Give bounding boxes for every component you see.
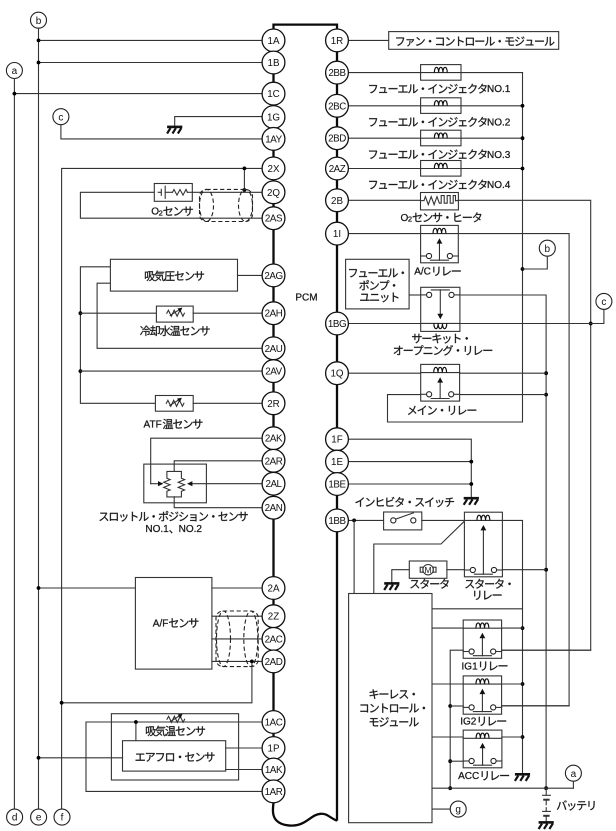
svg-text:2AR: 2AR — [265, 456, 283, 467]
svg-text:1AK: 1AK — [265, 765, 283, 776]
svg-text:2BB: 2BB — [328, 68, 346, 79]
wire 2AK to TPS wiper1 — [151, 438, 262, 484]
node b (top-left) — [31, 12, 47, 28]
svg-text:g: g — [455, 805, 461, 816]
svg-text:a: a — [12, 66, 18, 77]
svg-text:c: c — [601, 297, 606, 308]
shield A/F cable — [216, 611, 258, 667]
wire 2AG — [238, 274, 263, 276]
wire MAF to e-bus — [39, 757, 123, 759]
node f (bottom) — [54, 809, 70, 825]
wire 2X shield drain — [243, 168, 245, 190]
wire circuit relay contact to B-bus — [460, 295, 546, 788]
svg-text:ACC: ACC — [458, 771, 479, 782]
PCM left pins 1A 1B 1C 1G 1AY 2X 2Q 2AS 2AG 2AH 2AU 2AV 2R 2AK 2AR 2AL 2AN 2A 2Z 2AC 2AD 1AC 1P 1AK 1AR — [262, 29, 285, 52]
wire starter relay contact right — [502, 569, 546, 571]
svg-text:2AN: 2AN — [265, 503, 283, 514]
svg-text:2X: 2X — [268, 164, 280, 175]
wire keyless to battery bus — [432, 787, 573, 789]
wire c to 1AY — [61, 125, 262, 139]
wire 1AK — [226, 769, 262, 771]
svg-text:a: a — [571, 769, 577, 780]
A/C relay label — [414, 267, 460, 278]
wire starter relay coil to keyless — [374, 521, 465, 593]
inhibitor switch — [384, 512, 422, 530]
wire a-to-d vertical bus — [13, 79, 15, 810]
wire 1BE — [348, 483, 471, 485]
TPS outer box — [144, 464, 207, 503]
wire 2AR to TPS top — [174, 461, 262, 472]
wire injector 3 right — [461, 137, 523, 139]
node c (right) — [596, 293, 612, 309]
wire injector 2 left — [348, 105, 420, 107]
O2 sensor heater — [421, 193, 459, 210]
wire keyless to IG1 coil — [432, 627, 463, 629]
svg-text:1F: 1F — [331, 435, 342, 446]
svg-text:2AD: 2AD — [265, 657, 283, 668]
wire keyless to IG2 coil — [432, 683, 463, 685]
TPS resistor element 1 — [164, 471, 175, 497]
node a (left) — [6, 63, 22, 79]
svg-text:2AV: 2AV — [265, 367, 282, 378]
MAF label — [136, 752, 215, 761]
node c (left) — [53, 109, 69, 125]
wire b-to-e vertical bus — [38, 28, 40, 809]
svg-text:b: b — [545, 244, 551, 255]
PCM label — [295, 293, 317, 304]
wire ACC contact left — [450, 760, 463, 762]
injector supply bus — [388, 73, 523, 422]
wire 2AD shield drain to f-bus — [62, 661, 252, 702]
svg-text:2AC: 2AC — [265, 634, 283, 645]
svg-text:e: e — [36, 813, 42, 824]
svg-text:1BB: 1BB — [328, 516, 346, 527]
IAT thermistor symbol — [167, 716, 185, 722]
battery label — [557, 800, 595, 810]
wire 1C — [14, 93, 262, 95]
svg-text:1B: 1B — [268, 58, 280, 69]
svg-text:IG2: IG2 — [460, 717, 477, 728]
svg-text:2AU: 2AU — [265, 344, 283, 355]
wire IG1 contact left down — [450, 650, 463, 788]
wire IG2 contact right — [502, 705, 569, 707]
wire a drop — [572, 781, 574, 788]
wire injector 1 left — [348, 72, 420, 74]
wire 1Q — [348, 372, 420, 374]
node b (right) — [539, 240, 555, 256]
wire injector 2 right — [461, 105, 523, 107]
svg-text:NO.1: NO.1 — [487, 84, 511, 95]
wire O2 sensor loop to 2AS — [80, 192, 262, 218]
wire main relay coil right — [460, 372, 546, 374]
A/F sensor label — [153, 618, 199, 629]
wire 2AD — [212, 660, 263, 662]
IG1 relay — [463, 620, 501, 658]
coolant temp label — [140, 326, 209, 336]
wire 2B right to D-bus — [458, 200, 591, 650]
svg-text:1Q: 1Q — [330, 369, 343, 380]
battery — [545, 788, 547, 795]
svg-text:2R: 2R — [267, 399, 280, 410]
circuit opening relay label l2 — [394, 345, 492, 355]
fuel injector NO.3 — [421, 130, 461, 146]
svg-text:1AR: 1AR — [265, 787, 283, 798]
circuit opening relay — [421, 287, 460, 331]
node a (right) — [565, 765, 581, 781]
wire fuel pump to relay contact — [409, 294, 421, 296]
fuel pump unit box — [346, 259, 410, 309]
MAP sensor label — [145, 271, 204, 282]
O2 heater label — [401, 212, 482, 223]
PCM right connector spine — [336, 40, 338, 820]
MAF outer box — [111, 714, 238, 780]
svg-text:1C: 1C — [267, 89, 280, 100]
ground ACC bus — [515, 773, 530, 776]
ATF temp sensor — [155, 396, 193, 412]
IAT label — [146, 726, 205, 737]
wire 1I — [348, 233, 420, 235]
svg-text:2AG: 2AG — [264, 271, 282, 282]
wire injector 1 right — [461, 72, 523, 74]
svg-text:M: M — [425, 565, 432, 575]
wire 2Z — [212, 615, 263, 617]
node e (bottom) — [31, 809, 47, 825]
ACC relay — [463, 730, 502, 768]
TPS label line2 — [145, 524, 202, 535]
wire bus to keyless top right — [432, 608, 523, 610]
keyless control module box — [349, 594, 432, 823]
svg-text:1BE: 1BE — [328, 480, 346, 491]
ground 1G — [167, 126, 182, 129]
svg-text:1I: 1I — [333, 229, 341, 240]
wire 2AV — [80, 370, 262, 372]
svg-text:NO.3: NO.3 — [487, 150, 511, 161]
starter relay label l1 — [465, 579, 510, 589]
node d (bottom) — [7, 809, 23, 825]
svg-text:2B: 2B — [331, 196, 343, 207]
injector NO.1 label — [369, 84, 511, 95]
ground starter — [384, 582, 399, 585]
ATF temp label — [144, 419, 203, 431]
wire 1BB to keyless — [353, 520, 355, 593]
svg-text:2AZ: 2AZ — [329, 164, 346, 175]
svg-text:2A: 2A — [268, 584, 280, 595]
main relay label — [408, 406, 476, 415]
svg-text:1AY: 1AY — [265, 134, 282, 145]
PCM left connector spine — [272, 40, 274, 791]
wire coolant sensor left — [80, 312, 156, 314]
injector NO.2 label — [369, 117, 511, 128]
wire 2Q to O2 sensor — [192, 191, 262, 193]
wire b to injector bus — [523, 256, 548, 269]
O2 sensor — [154, 184, 192, 202]
svg-text:1G: 1G — [267, 113, 280, 124]
wire 1B — [39, 62, 263, 64]
fuel pump label l2 — [359, 280, 395, 290]
starter motor box — [409, 561, 447, 578]
coolant temp sensor — [156, 306, 193, 322]
fan control module label — [396, 36, 554, 46]
svg-text:2Z: 2Z — [268, 612, 279, 623]
starter relay label l2 — [474, 591, 501, 600]
IG2 relay label — [460, 717, 506, 728]
shield O2 sensor cable — [200, 189, 253, 221]
svg-text:2AS: 2AS — [265, 214, 283, 225]
svg-text:c: c — [58, 112, 63, 123]
wire 1BB to switch — [348, 519, 383, 521]
svg-text:1E: 1E — [331, 457, 343, 468]
wire injector 4 left — [348, 168, 420, 170]
ground battery — [539, 821, 554, 824]
svg-text:NO.4: NO.4 — [487, 180, 511, 191]
wire IG2 coil right — [502, 683, 523, 685]
ACC relay label — [458, 771, 509, 782]
svg-text:1BG: 1BG — [328, 319, 346, 330]
svg-text:1P: 1P — [268, 744, 280, 755]
wire injector 4 right — [461, 168, 523, 170]
wire IAT junction to MAF box — [135, 722, 137, 741]
wire 1G to ground — [175, 117, 262, 127]
svg-text:2AK: 2AK — [265, 434, 283, 445]
wire IG1 contact right — [502, 649, 591, 651]
injector NO.3 label — [369, 149, 511, 160]
svg-text:IG1: IG1 — [462, 661, 479, 672]
fuel injector NO.1 — [421, 65, 461, 81]
A/F sensor box — [135, 578, 212, 670]
main relay — [421, 364, 460, 401]
svg-text:2: 2 — [159, 208, 163, 217]
fuel pump label l1 — [349, 269, 404, 278]
svg-text:2AL: 2AL — [265, 479, 282, 490]
svg-text:2Q: 2Q — [267, 188, 280, 199]
wire 2B left — [348, 199, 421, 201]
svg-text:b: b — [36, 16, 42, 27]
keyless label l3 — [370, 717, 419, 726]
circuit opening relay label l1 — [412, 334, 468, 344]
svg-text:1AC: 1AC — [265, 718, 283, 729]
MAF sensor box — [123, 741, 226, 771]
wire TPS bottom to 2AN — [174, 497, 262, 508]
wire 2R — [193, 402, 262, 404]
IG1 relay label — [462, 661, 508, 672]
wire sensor-ground bus x=80 — [80, 267, 155, 404]
svg-text:2BC: 2BC — [328, 101, 346, 112]
fan control module box — [389, 32, 559, 50]
svg-text:2: 2 — [408, 215, 412, 224]
svg-text:2AH: 2AH — [265, 309, 283, 320]
node g — [450, 801, 466, 817]
wire ACC coil right — [502, 736, 523, 738]
wire 2AH — [193, 312, 262, 314]
wire injector 3 left — [348, 137, 420, 139]
wire switch to starter relay coil — [422, 519, 465, 521]
wire 1BG — [348, 323, 420, 325]
wire starter to relay contact — [447, 569, 465, 571]
wire c drop — [591, 309, 604, 323]
TPS resistor element 2 — [174, 471, 184, 497]
wire 2A — [39, 587, 136, 589]
wire A/C coil to C-bus — [458, 234, 569, 706]
wire 2X to f vertical bus — [62, 168, 262, 809]
wire IG2 contact left — [450, 705, 463, 707]
fuel injector NO.4 — [421, 161, 461, 177]
MAP sensor box — [110, 259, 237, 291]
wire circuit relay coil to c — [460, 323, 591, 325]
svg-text:d: d — [12, 813, 18, 824]
PCM right pins 1R 2BB 2BC 2BD 2AZ 2B 1I 1BG 1Q 1F 1E 1BE 1BB — [326, 29, 349, 52]
TPS wiper1 arrow — [151, 483, 159, 485]
injector NO.4 label — [369, 180, 511, 191]
wire 1P — [226, 747, 262, 749]
PCM bottom squiggle — [273, 803, 337, 826]
wire 1F — [348, 439, 471, 498]
svg-text:ATF: ATF — [144, 420, 162, 431]
svg-text:PCM: PCM — [295, 293, 317, 304]
starter relay — [464, 512, 502, 577]
wire IG1 coil right — [502, 627, 523, 629]
svg-text:f: f — [61, 813, 64, 824]
wire starter motor ground — [392, 570, 410, 584]
IG2 relay — [463, 676, 501, 714]
svg-text:NO.1: NO.1 — [145, 524, 169, 535]
svg-text:A/F: A/F — [153, 618, 169, 629]
wire 1AC with IAT thermistor — [86, 721, 262, 723]
fuel pump label l3 — [360, 293, 398, 303]
svg-text:NO.2: NO.2 — [487, 117, 511, 128]
wire starter relay coil right — [502, 520, 522, 774]
ground 1F/1E/1BE — [464, 497, 479, 500]
wire 2AL to TPS wiper2 — [192, 483, 262, 485]
svg-text:A/C: A/C — [414, 267, 431, 278]
wire 1E — [348, 461, 471, 463]
svg-text:1A: 1A — [268, 36, 280, 47]
fuel injector NO.2 — [421, 98, 461, 114]
O2 sensor label — [151, 207, 193, 218]
wire 1R — [348, 39, 388, 41]
wire main relay contact right — [460, 394, 546, 396]
wire 2AC — [212, 638, 263, 640]
wire keyless to ACC coil — [432, 736, 463, 738]
wire 2A right — [212, 587, 262, 589]
keyless label l1 — [370, 689, 415, 699]
svg-text:2BD: 2BD — [328, 134, 346, 145]
svg-text:1R: 1R — [331, 36, 344, 47]
TPS label line1 — [99, 511, 247, 522]
wire MAP to 2AU — [97, 283, 262, 348]
wire 1AR — [86, 722, 262, 791]
PCM top bracket — [274, 25, 338, 30]
wire 1A — [39, 39, 263, 41]
inhibitor switch label — [355, 497, 454, 507]
starter label — [410, 579, 448, 589]
keyless label l2 — [360, 703, 425, 712]
wire keyless to g — [432, 808, 450, 810]
svg-text:NO.2: NO.2 — [179, 524, 203, 535]
A/C relay U-AC — [421, 225, 459, 262]
